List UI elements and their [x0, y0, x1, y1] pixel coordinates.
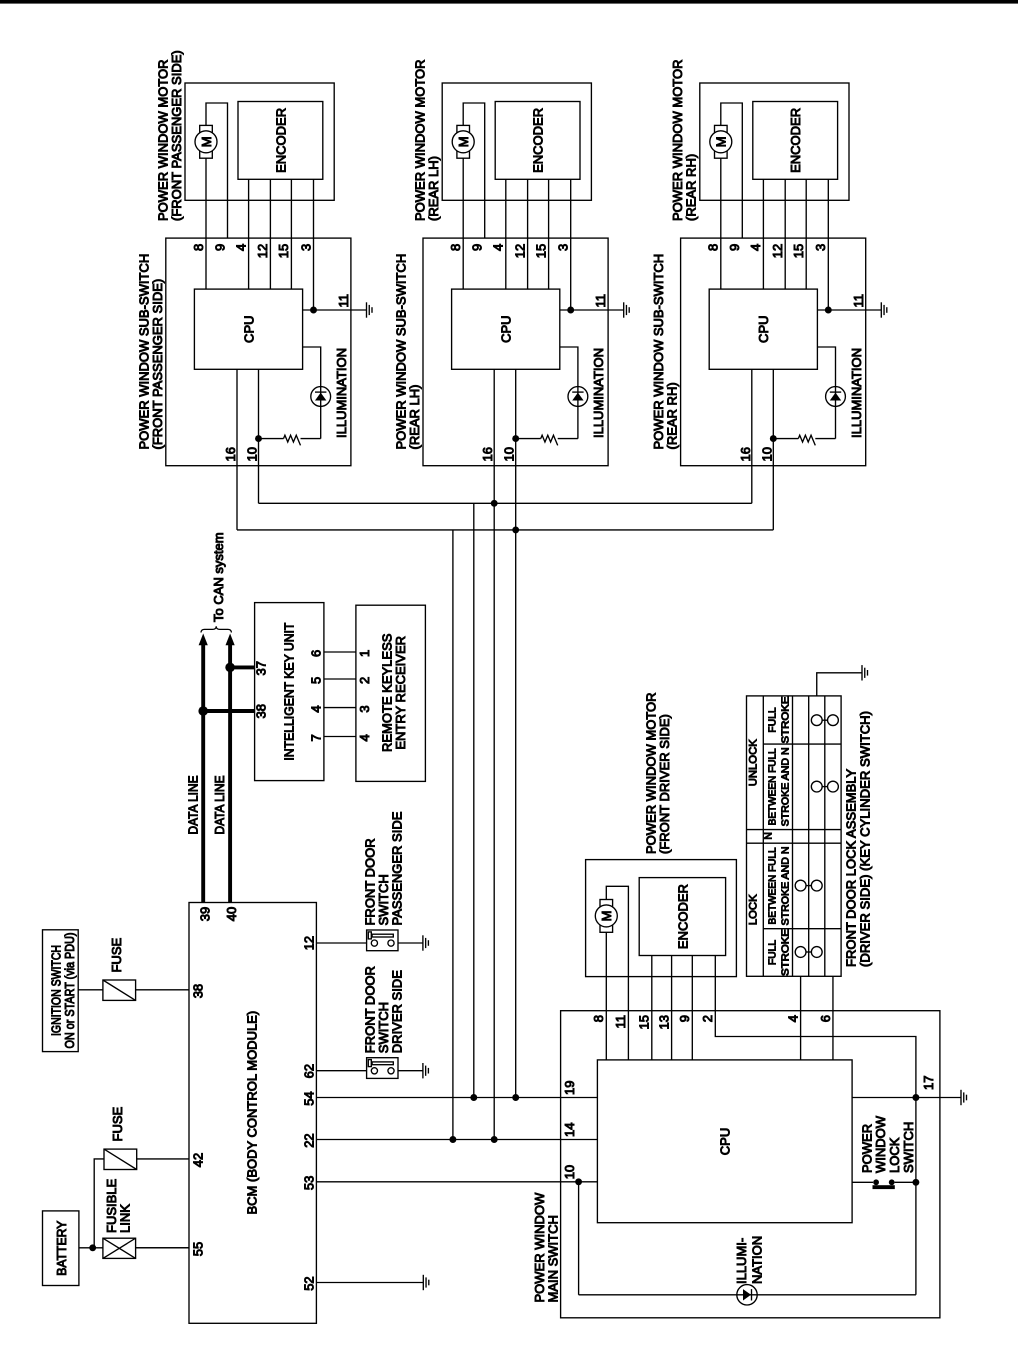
svg-text:STROKE: STROKE: [780, 696, 791, 743]
svg-text:M: M: [599, 910, 614, 921]
svg-text:UNLOCK: UNLOCK: [748, 739, 760, 787]
svg-text:(DRIVER SIDE) (KEY CYLINDER SW: (DRIVER SIDE) (KEY CYLINDER SWITCH): [858, 711, 873, 967]
svg-text:SWITCH: SWITCH: [901, 1122, 916, 1173]
svg-text:10: 10: [502, 447, 517, 461]
svg-text:(REAR RH): (REAR RH): [665, 382, 680, 449]
svg-text:ILLUMINATION: ILLUMINATION: [591, 348, 606, 438]
svg-text:4: 4: [785, 1015, 800, 1022]
svg-text:LINK: LINK: [117, 1204, 132, 1233]
svg-text:1: 1: [357, 650, 372, 657]
svg-text:(FRONT PASSENGER SIDE): (FRONT PASSENGER SIDE): [169, 50, 184, 221]
svg-text:11: 11: [613, 1015, 628, 1029]
svg-text:4: 4: [491, 244, 506, 251]
svg-text:M: M: [456, 136, 471, 147]
svg-text:(REAR RH): (REAR RH): [684, 154, 699, 221]
svg-text:BCM (BODY CONTROL MODULE): BCM (BODY CONTROL MODULE): [245, 1011, 260, 1215]
svg-text:CPU: CPU: [241, 315, 256, 342]
svg-text:CPU: CPU: [499, 315, 514, 342]
svg-text:3: 3: [298, 244, 313, 251]
svg-text:ILLUMINATION: ILLUMINATION: [334, 348, 349, 438]
svg-text:52: 52: [301, 1276, 316, 1290]
svg-text:(REAR LH): (REAR LH): [426, 156, 441, 221]
svg-text:4: 4: [357, 734, 372, 741]
svg-text:12: 12: [255, 244, 270, 258]
svg-text:8: 8: [191, 244, 206, 251]
svg-text:CPU: CPU: [717, 1128, 732, 1155]
svg-text:15: 15: [276, 244, 291, 258]
svg-text:ON or START (via PDU): ON or START (via PDU): [62, 933, 77, 1049]
svg-text:16: 16: [480, 447, 495, 461]
svg-text:FULL: FULL: [767, 707, 778, 732]
svg-text:8: 8: [591, 1015, 606, 1022]
svg-text:STROKE: STROKE: [780, 929, 791, 976]
svg-text:9: 9: [212, 244, 227, 251]
svg-text:FUSE: FUSE: [109, 938, 124, 973]
svg-text:15: 15: [791, 244, 806, 258]
svg-text:M: M: [714, 136, 729, 147]
svg-text:BATTERY: BATTERY: [54, 1220, 69, 1275]
svg-text:16: 16: [738, 447, 753, 461]
svg-text:37: 37: [254, 661, 269, 675]
svg-text:19: 19: [562, 1081, 577, 1095]
svg-text:ENCODER: ENCODER: [788, 108, 803, 173]
svg-text:LOCK: LOCK: [887, 1137, 902, 1173]
svg-text:ENCODER: ENCODER: [273, 108, 288, 173]
svg-text:3: 3: [813, 244, 828, 251]
svg-text:13: 13: [656, 1015, 671, 1029]
svg-text:53: 53: [301, 1176, 316, 1190]
svg-text:8: 8: [448, 244, 463, 251]
svg-text:BETWEEN FULL: BETWEEN FULL: [767, 847, 778, 924]
svg-text:4: 4: [309, 705, 324, 712]
svg-text:11: 11: [851, 294, 866, 308]
svg-text:DATA LINE: DATA LINE: [186, 775, 201, 834]
svg-text:ILLUMINATION: ILLUMINATION: [849, 348, 864, 438]
svg-text:To CAN system: To CAN system: [211, 532, 226, 622]
svg-text:ENCODER: ENCODER: [676, 884, 691, 949]
svg-text:WINDOW: WINDOW: [873, 1115, 888, 1173]
svg-text:22: 22: [301, 1133, 316, 1147]
svg-text:4: 4: [233, 244, 248, 251]
svg-text:12: 12: [301, 936, 316, 950]
svg-text:55: 55: [191, 1242, 206, 1256]
svg-text:ENCODER: ENCODER: [531, 108, 546, 173]
svg-text:15: 15: [533, 244, 548, 258]
svg-text:7: 7: [309, 734, 324, 741]
svg-text:DATA LINE: DATA LINE: [212, 775, 227, 834]
svg-text:(FRONT DRIVER SIDE): (FRONT DRIVER SIDE): [657, 714, 672, 854]
svg-text:38: 38: [191, 984, 206, 998]
svg-text:2: 2: [357, 677, 372, 684]
svg-text:54: 54: [301, 1091, 316, 1105]
svg-text:10: 10: [245, 447, 260, 461]
svg-text:INTELLIGENT KEY UNIT: INTELLIGENT KEY UNIT: [281, 623, 296, 761]
svg-text:8: 8: [706, 244, 721, 251]
svg-text:(FRONT PASSENGER SIDE): (FRONT PASSENGER SIDE): [150, 279, 165, 450]
svg-text:9: 9: [470, 244, 485, 251]
svg-text:FULL: FULL: [767, 940, 778, 965]
svg-text:DRIVER SIDE: DRIVER SIDE: [389, 970, 404, 1053]
svg-text:42: 42: [191, 1153, 206, 1167]
svg-text:POWER: POWER: [859, 1124, 874, 1173]
svg-text:ENTRY RECEIVER: ENTRY RECEIVER: [393, 636, 408, 750]
svg-text:10: 10: [562, 1165, 577, 1179]
svg-text:16: 16: [223, 447, 238, 461]
svg-text:6: 6: [309, 650, 324, 657]
svg-text:BETWEEN FULL: BETWEEN FULL: [767, 748, 778, 825]
svg-text:15: 15: [637, 1015, 652, 1029]
svg-text:M: M: [199, 136, 214, 147]
svg-text:11: 11: [336, 294, 351, 308]
svg-text:14: 14: [562, 1123, 577, 1137]
svg-text:11: 11: [593, 294, 608, 308]
svg-text:3: 3: [556, 244, 571, 251]
svg-text:5: 5: [309, 677, 324, 684]
svg-text:62: 62: [301, 1064, 316, 1078]
svg-text:39: 39: [198, 907, 213, 921]
svg-text:FUSE: FUSE: [110, 1107, 125, 1142]
svg-text:40: 40: [224, 907, 239, 921]
svg-text:(REAR LH): (REAR LH): [407, 384, 422, 449]
svg-text:NATION: NATION: [749, 1236, 764, 1284]
svg-text:17: 17: [921, 1076, 936, 1090]
svg-text:ILLUMI-: ILLUMI-: [734, 1238, 749, 1284]
svg-text:12: 12: [770, 244, 785, 258]
svg-text:9: 9: [727, 244, 742, 251]
svg-text:PASSENGER SIDE: PASSENGER SIDE: [389, 811, 404, 925]
svg-text:10: 10: [759, 447, 774, 461]
svg-text:MAIN SWITCH: MAIN SWITCH: [546, 1215, 561, 1302]
svg-text:STROKE AND N: STROKE AND N: [780, 846, 791, 925]
svg-text:4: 4: [748, 244, 763, 251]
svg-text:STROKE AND N: STROKE AND N: [780, 747, 791, 826]
svg-text:FRONT DOOR LOCK ASSEMBLY: FRONT DOOR LOCK ASSEMBLY: [844, 768, 859, 967]
svg-text:CPU: CPU: [756, 315, 771, 342]
svg-text:LOCK: LOCK: [748, 894, 760, 925]
svg-text:38: 38: [254, 704, 269, 718]
svg-text:N: N: [764, 832, 775, 839]
svg-text:6: 6: [818, 1015, 833, 1022]
svg-text:9: 9: [677, 1015, 692, 1022]
svg-text:12: 12: [512, 244, 527, 258]
svg-text:2: 2: [700, 1015, 715, 1022]
svg-text:3: 3: [357, 705, 372, 712]
